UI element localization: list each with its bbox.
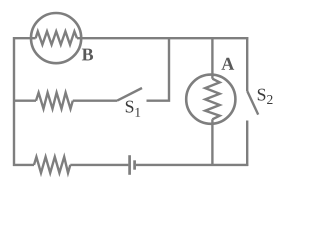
lamp A circle — [186, 75, 235, 124]
wire: top segment from lamp B to top-right corner — [77, 37, 248, 39]
battery long plate — [128, 155, 131, 175]
wire: middle-left lead — [13, 99, 36, 101]
wire: lamp A branch riser from top wire — [211, 37, 213, 79]
lamp A filament zigzag (vertical) — [205, 79, 220, 120]
lamp B filament zigzag — [36, 31, 77, 44]
resistor R2 (bottom) zigzag — [34, 157, 70, 173]
label S2 (switch S2) — [258, 89, 273, 104]
resistor R1 (middle) zigzag — [36, 93, 73, 109]
wire: left edge vertical — [13, 37, 15, 166]
wire: S1 right terminal and riser to top wire — [147, 37, 170, 101]
wire: bottom-left lead — [13, 164, 34, 166]
label S1 (switch S1) — [126, 101, 140, 117]
label A (lamp A) — [221, 58, 234, 70]
label B (lamp B) — [82, 49, 93, 61]
lamp B circle — [31, 13, 81, 63]
wire: right edge upper segment — [246, 37, 248, 91]
wire: middle lead to switch S1 — [73, 99, 117, 101]
switch S1 blade — [117, 88, 142, 101]
wire: right edge lower segment — [246, 121, 248, 167]
wire: lamp A branch down to bottom wire — [211, 119, 213, 166]
wire: bottom lead to battery — [70, 164, 128, 166]
wire: bottom segment from battery to bottom-right corner — [136, 164, 248, 166]
switch S2 blade — [247, 91, 258, 115]
battery short plate — [133, 160, 136, 169]
wire: top-left segment into lamp B — [13, 37, 36, 39]
